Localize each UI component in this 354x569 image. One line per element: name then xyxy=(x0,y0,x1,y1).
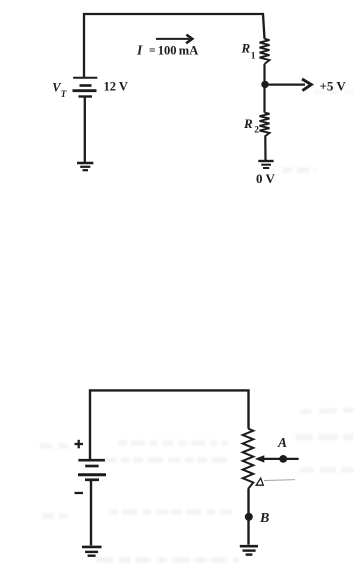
svg-text:I: I xyxy=(136,42,143,57)
battery VT short plate xyxy=(80,84,92,87)
svg-text:0 V: 0 V xyxy=(256,171,276,186)
wire battery to ground xyxy=(84,98,86,163)
svg-text:100: 100 xyxy=(158,43,177,57)
node dot B xyxy=(245,513,253,521)
battery (circuit 2) long plate xyxy=(78,459,105,462)
svg-text:B: B xyxy=(259,511,269,526)
node dot A xyxy=(279,455,287,463)
arrow to +5V xyxy=(265,83,305,85)
battery plus sign xyxy=(75,443,84,445)
wire R2 to ground xyxy=(264,137,266,160)
svg-text:=: = xyxy=(149,45,156,57)
delta wiper symbol xyxy=(256,478,263,485)
wire top (circuit 2) xyxy=(90,390,249,459)
battery short plate xyxy=(85,465,98,468)
ground (bottom left) xyxy=(82,546,102,549)
battery long plate xyxy=(78,473,106,476)
wire node to R2 xyxy=(263,84,265,112)
svg-text:R: R xyxy=(241,41,251,56)
battery VT short plate bottom xyxy=(79,95,93,97)
node dot +5V xyxy=(261,81,268,88)
svg-text:+5 V: +5 V xyxy=(320,78,347,93)
svg-text:T: T xyxy=(61,89,67,99)
svg-text:12 V: 12 V xyxy=(104,80,128,94)
battery VT long plate top xyxy=(73,77,97,79)
ground (left, circuit 1) xyxy=(77,162,93,164)
ground (bottom right) xyxy=(240,545,258,548)
resistor R1 xyxy=(260,39,270,64)
current arrow xyxy=(156,38,190,40)
wire R1 to node xyxy=(263,64,265,85)
battery VT long plate xyxy=(73,89,97,92)
resistor R2 xyxy=(260,113,270,137)
potentiometer zigzag xyxy=(243,429,254,490)
battery short plate bottom xyxy=(85,478,99,481)
ground (below R2) xyxy=(258,160,273,162)
battery minus sign xyxy=(75,492,84,494)
wire battery to ground (circuit 2) xyxy=(90,481,92,546)
wiper arrow xyxy=(255,455,264,462)
svg-text:A: A xyxy=(277,435,287,450)
svg-text:R: R xyxy=(243,116,253,131)
wire pot to B xyxy=(247,489,249,545)
wire top (circuit 1) xyxy=(84,14,265,78)
svg-text:1: 1 xyxy=(251,52,256,62)
svg-text:mA: mA xyxy=(179,43,198,57)
svg-text:2: 2 xyxy=(254,126,259,136)
